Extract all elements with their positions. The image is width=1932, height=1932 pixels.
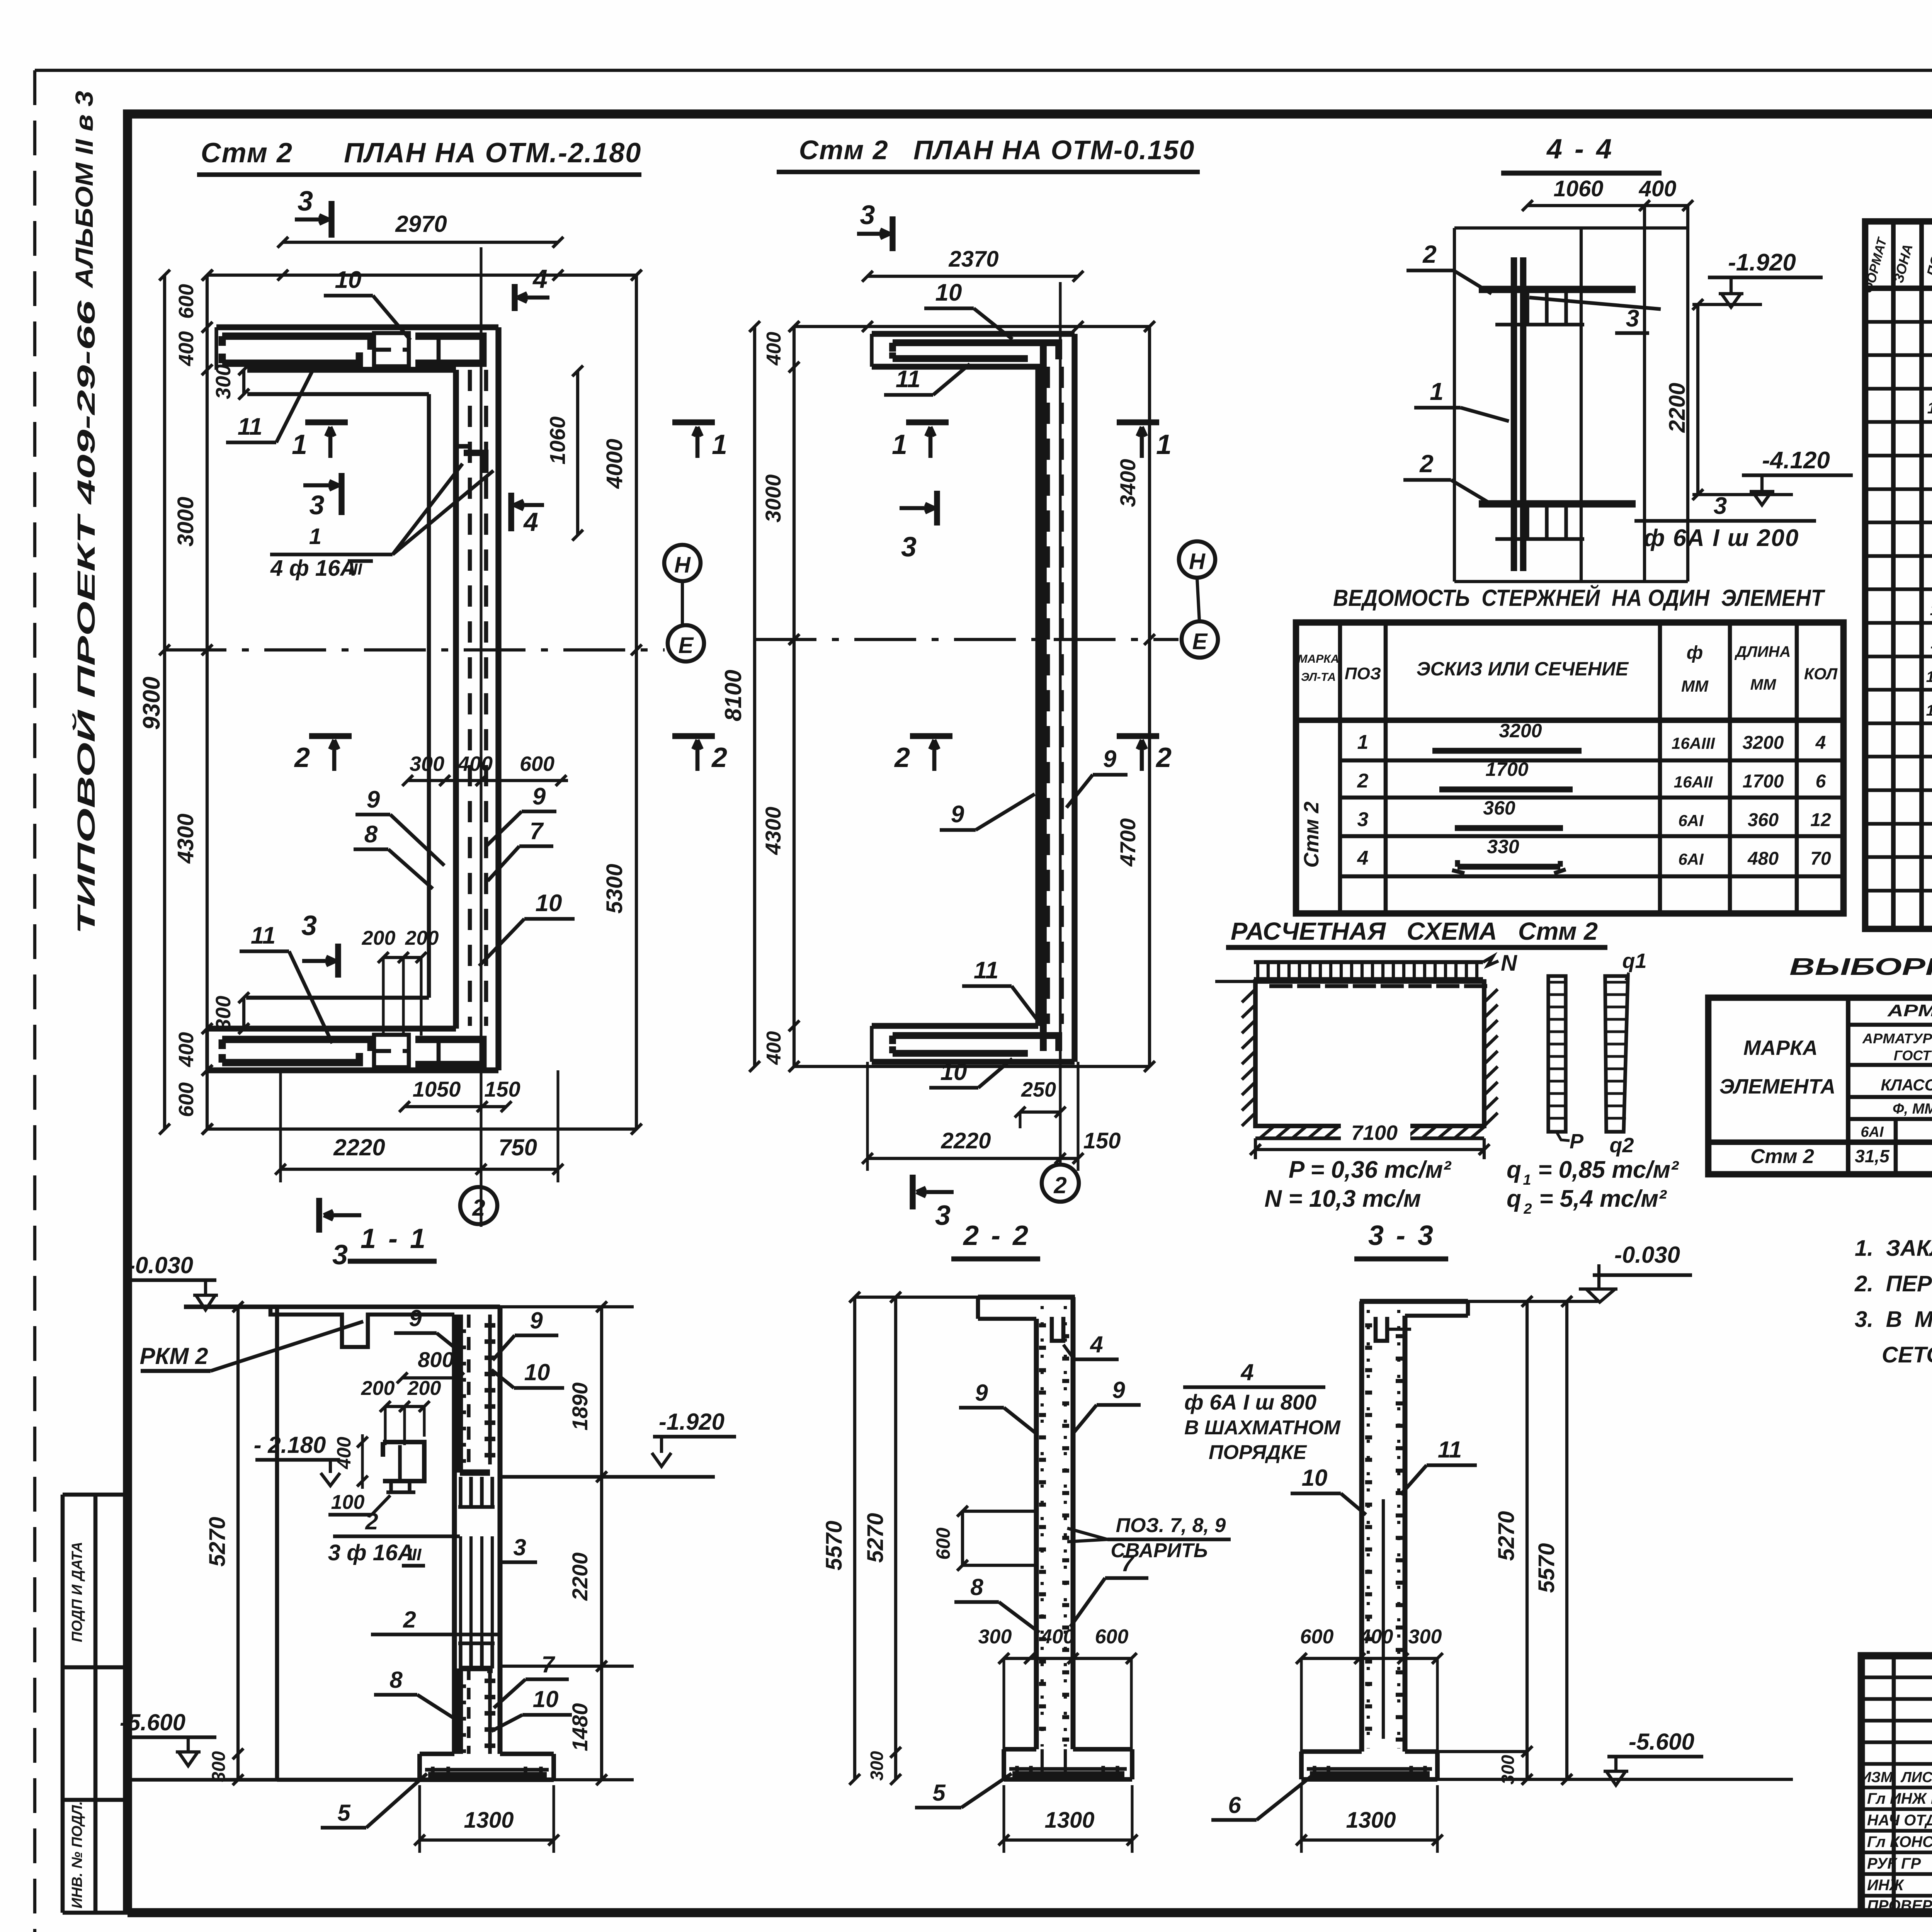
svg-text:Е: Е (679, 633, 694, 658)
plan2 right band rebar (1046, 367, 1050, 1024)
svg-text:РАСЧЕТНАЯ СХЕМА Стм 2: РАСЧЕТНАЯ СХЕМА Стм 2 (1231, 917, 1598, 945)
schema load strip 1 (1548, 976, 1566, 1132)
plan1 section marker 2 left (309, 733, 352, 739)
plan1 top band rebar left group (222, 336, 371, 350)
svg-text:400: 400 (457, 752, 493, 776)
svg-text:III: III (407, 1545, 422, 1564)
svg-text:300: 300 (212, 996, 235, 1031)
svg-text:КЛАСС А-I: КЛАСС А-I (1881, 1076, 1932, 1094)
plan2 section marker 3 mid (934, 491, 940, 526)
svg-text:Гл ИНЖ ПР: Гл ИНЖ ПР (1867, 1790, 1932, 1807)
svg-text:Стм 2 ПЛАН НА ОТМ.-2.18: Стм 2 ПЛАН НА ОТМ.-2.180 (201, 138, 642, 168)
svg-text:360: 360 (1748, 810, 1779, 830)
svg-text:q: q (1507, 1185, 1521, 1212)
svg-text:1-4: 1-4 (1927, 399, 1932, 417)
svg-text:В ШАХМАТНОМ: В ШАХМАТНОМ (1184, 1417, 1341, 1439)
svg-text:ВЫБОРКА СТАЛИ НА ОДИН ЭЛЕМЕНТ,: ВЫБОРКА СТАЛИ НА ОДИН ЭЛЕМЕНТ, КГ (1789, 954, 1932, 980)
svg-text:7: 7 (1121, 1550, 1135, 1576)
section 3-3 top level line (1468, 1300, 1598, 1303)
svg-text:4 - 4: 4 - 4 (1546, 134, 1614, 165)
svg-text:2: 2 (294, 742, 310, 773)
svg-text:200: 200 (361, 1377, 395, 1400)
svg-text:400: 400 (1041, 1626, 1075, 1648)
svg-text:600: 600 (932, 1527, 954, 1560)
svg-text:ПОДП И ДАТА: ПОДП И ДАТА (69, 1542, 85, 1642)
svg-text:ММ: ММ (1750, 676, 1777, 693)
svg-text:ММ: ММ (1681, 677, 1709, 695)
svg-text:ПОЗ: ПОЗ (1345, 664, 1381, 683)
svg-text:2 - 2: 2 - 2 (963, 1220, 1031, 1251)
svg-text:6: 6 (1228, 1792, 1241, 1818)
plan1 wall top band (216, 324, 498, 330)
svg-text:2: 2 (1419, 450, 1434, 478)
svg-text:НАЧ ОТД: НАЧ ОТД (1867, 1812, 1932, 1829)
svg-text:7: 7 (530, 818, 544, 845)
vyborka vertical lines (1846, 998, 1850, 1174)
svg-text:400: 400 (763, 332, 785, 366)
section 2-2 wall rebar right chain (1064, 1306, 1067, 1747)
section 2-2 footing rebar (1009, 1767, 1127, 1770)
svg-text:4: 4 (1240, 1359, 1253, 1385)
svg-text:200: 200 (407, 1377, 441, 1400)
svg-text:100: 100 (1926, 668, 1932, 685)
svg-text:600: 600 (520, 752, 554, 776)
plan1 section marker 4 mid (508, 493, 514, 531)
svg-text:1 - 1: 1 - 1 (361, 1223, 428, 1254)
svg-text:8: 8 (389, 1667, 403, 1693)
plan1 section marker 4 top (512, 284, 517, 311)
section 4-4 dim 2200 (1696, 304, 1699, 495)
svg-text:1300: 1300 (1044, 1808, 1094, 1833)
svg-text:11: 11 (896, 366, 920, 393)
title block small rows top-left (1861, 1675, 1932, 1679)
svg-text:9: 9 (975, 1380, 988, 1406)
svg-text:Е: Е (1192, 629, 1208, 654)
svg-text:-0.030: -0.030 (128, 1252, 193, 1278)
svg-text:300: 300 (867, 1751, 887, 1781)
plan1 section marker 3 very bottom (316, 1198, 322, 1233)
section 3-3 center bar (1382, 1499, 1385, 1739)
svg-text:-0.030: -0.030 (1614, 1242, 1680, 1268)
plan1 bottom band rebar right group (415, 1039, 483, 1065)
svg-text:9: 9 (1112, 1377, 1125, 1403)
svg-text:5270: 5270 (205, 1517, 230, 1566)
svg-text:200: 200 (362, 927, 396, 949)
plan1 top band rebar right group (415, 336, 483, 363)
svg-text:1700: 1700 (1485, 759, 1528, 780)
svg-text:Стм 2 ПЛАН НА ОТМ-0.150: Стм 2 ПЛАН НА ОТМ-0.150 (799, 135, 1195, 165)
svg-text:2220: 2220 (940, 1128, 991, 1153)
plan2 outer dims (794, 325, 1150, 328)
svg-text:ПОРЯДКЕ: ПОРЯДКЕ (1209, 1441, 1307, 1464)
plan2 section marker 3 top (889, 216, 895, 251)
svg-text:9: 9 (409, 1305, 422, 1331)
plan1 wall bottom band (207, 1026, 456, 1031)
svg-text:ДЛИНА: ДЛИНА (1735, 643, 1791, 660)
svg-text:3: 3 (860, 200, 875, 230)
svg-text:АРМАТУРНАЯ СТАЛЬ: АРМАТУРНАЯ СТАЛЬ (1862, 1031, 1932, 1046)
section 4-4 vertical grid lines (1643, 206, 1646, 582)
svg-text:2: 2 (365, 1509, 378, 1534)
svg-text:2200: 2200 (1665, 383, 1690, 433)
section 3-3 flange (1360, 1299, 1468, 1304)
svg-text:400: 400 (333, 1437, 355, 1469)
plan2 bottom band rebar (893, 1036, 1059, 1051)
section 2-2 footing (1004, 1747, 1036, 1752)
plan1 outer dim rectangle (207, 274, 636, 277)
schema left hatch (1242, 989, 1255, 1002)
svg-text:q2: q2 (1609, 1134, 1634, 1157)
svg-text:1060: 1060 (545, 417, 570, 465)
svg-text:3: 3 (301, 910, 317, 941)
section 1-1 right dims (600, 1307, 603, 1780)
svg-text:600: 600 (175, 284, 198, 319)
section 2-2 wall into footing rebar (1041, 1749, 1044, 1774)
svg-text:3200: 3200 (1743, 733, 1784, 753)
section 1-1 left dims (236, 1307, 240, 1780)
svg-text:1: 1 (1357, 731, 1369, 753)
svg-text:9: 9 (367, 786, 380, 813)
svg-text:300: 300 (978, 1626, 1012, 1648)
svg-text:2: 2 (1053, 1172, 1066, 1198)
svg-text:9: 9 (1103, 746, 1117, 772)
section 1-1 left region outline (275, 1307, 279, 1780)
section 1-1 upper rebar (457, 1315, 463, 1473)
svg-text:4 ф 16А: 4 ф 16А (270, 556, 356, 581)
spec table header row (1865, 286, 1932, 291)
svg-text:Н: Н (1189, 549, 1206, 574)
svg-text:10: 10 (1930, 600, 1932, 619)
svg-text:750: 750 (498, 1134, 537, 1160)
sheet outer thin border left (dashed scan edge) (33, 70, 36, 1932)
section 4-4 floor slabs (1479, 286, 1636, 293)
svg-text:3: 3 (1626, 305, 1639, 332)
plan2 axis-2 vertical (1059, 282, 1061, 1165)
section 1-1 starter bars lower (459, 1643, 462, 1668)
svg-text:3: 3 (332, 1240, 348, 1270)
schema top load strip (1254, 960, 1483, 964)
svg-text:Ф, ММ: Ф, ММ (1893, 1101, 1932, 1117)
section 3-3 dim 1300 (1301, 1838, 1437, 1842)
svg-text:= 5,4 тс/м²: = 5,4 тс/м² (1539, 1185, 1667, 1212)
svg-text:3. В МЕСТАХ ТЕХНОЛОГИЧЕС: 3. В МЕСТАХ ТЕХНОЛОГИЧЕСКИХ ОТВЕРСТИЙ АР… (1855, 1306, 1932, 1332)
plan2 section marker 2 right (1117, 733, 1159, 739)
svg-text:ТИПОВОЙ ПРОЕКТ 409-29-66: ТИПОВОЙ ПРОЕКТ 409-29-66 (71, 300, 100, 934)
svg-text:600: 600 (1300, 1626, 1334, 1648)
plan1 section marker 2 right (672, 733, 715, 739)
svg-text:ЭЛ-ТА: ЭЛ-ТА (1301, 671, 1336, 684)
plan2 section marker 1 left (906, 419, 949, 425)
left mini table (63, 1493, 128, 1497)
svg-text:1050: 1050 (413, 1077, 461, 1101)
svg-text:600: 600 (175, 1082, 198, 1117)
svg-text:2200: 2200 (568, 1553, 592, 1601)
svg-text:Гл КОНСТР: Гл КОНСТР (1867, 1833, 1932, 1850)
svg-text:1300: 1300 (1346, 1808, 1396, 1833)
svg-text:1300: 1300 (464, 1808, 514, 1833)
svg-text:101: 101 (1926, 702, 1932, 719)
svg-text:5570: 5570 (1534, 1543, 1559, 1593)
svg-text:-5.600: -5.600 (120, 1709, 185, 1735)
plan1 wall right band verticals (453, 370, 459, 1029)
svg-text:2: 2 (1357, 770, 1369, 792)
svg-text:11: 11 (238, 413, 262, 440)
svg-text:1: 1 (1156, 429, 1172, 460)
svg-text:-4.120: -4.120 (1762, 447, 1830, 474)
svg-text:1: 1 (1523, 1172, 1531, 1188)
svg-text:3000: 3000 (173, 497, 198, 546)
svg-text:200: 200 (405, 927, 439, 949)
svg-text:150: 150 (484, 1077, 520, 1101)
plan2 axis circle E (1182, 621, 1218, 658)
schema main rect (1255, 981, 1484, 1126)
svg-text:360: 360 (1483, 797, 1515, 819)
svg-text:400: 400 (175, 331, 198, 366)
svg-text:Стм 2: Стм 2 (1300, 801, 1323, 867)
svg-text:5570: 5570 (821, 1520, 847, 1570)
svg-text:8: 8 (970, 1574, 983, 1600)
section 3-3 footing (1301, 1749, 1362, 1754)
svg-text:P = 0,36 тс/м²: P = 0,36 тс/м² (1289, 1156, 1451, 1183)
section 1-1 slab with notch (270, 1307, 454, 1347)
svg-text:АЛЬБОМ II в 3: АЛЬБОМ II в 3 (70, 91, 98, 289)
vyborka horizontal lines (1848, 1023, 1932, 1027)
svg-text:РУК ГР: РУК ГР (1867, 1855, 1921, 1872)
plan2 section marker 2 left (910, 733, 952, 739)
svg-text:2: 2 (1155, 742, 1172, 773)
svg-text:2: 2 (472, 1195, 485, 1221)
svg-text:10: 10 (524, 1359, 550, 1385)
section 4-4 left extension (1453, 228, 1456, 582)
svg-text:10: 10 (940, 1059, 967, 1085)
schema squiggle N (1483, 956, 1498, 966)
svg-text:2. ПЕРЕКРЫТИЕ РКМ 2: 2. ПЕРЕКРЫТИЕ РКМ 2 СМОТРИТЕ НА ЛИСТЕ КЖ… (1854, 1271, 1932, 1296)
svg-text:P: P (1570, 1130, 1584, 1153)
svg-text:МАРКА: МАРКА (1743, 1036, 1818, 1060)
svg-text:1: 1 (292, 429, 307, 460)
svg-text:2: 2 (894, 742, 910, 773)
svg-text:10: 10 (533, 1686, 559, 1712)
svg-text:9: 9 (530, 1308, 543, 1333)
svg-text:АРМАТУРНЫЕ ИЗДЕЛИЯ: АРМАТУРНЫЕ ИЗДЕЛИЯ (1887, 1001, 1932, 1020)
schema bottom dim (1250, 1144, 1261, 1155)
svg-text:1060: 1060 (1553, 176, 1603, 201)
plan1 bottom band dashed bars (374, 1035, 409, 1067)
plan1 step lines (247, 392, 429, 396)
svg-text:3: 3 (901, 532, 917, 563)
plan2 wall outline (872, 331, 1075, 337)
plan1 section marker 1 right (672, 419, 715, 425)
plan2 top band rebar (893, 343, 1059, 359)
svg-text:3200: 3200 (1499, 720, 1542, 742)
svg-text:4: 4 (1815, 733, 1826, 753)
svg-text:ЭСКИЗ ИЛИ СЕЧЕНИЕ: ЭСКИЗ ИЛИ СЕЧЕНИЕ (1417, 658, 1629, 680)
svg-text:300: 300 (209, 1751, 229, 1782)
plan1 axis line horizontal (165, 648, 665, 651)
svg-text:330: 330 (1487, 836, 1519, 857)
svg-text:9: 9 (951, 801, 964, 828)
svg-text:2970: 2970 (395, 211, 447, 237)
svg-text:Н: Н (674, 553, 691, 578)
title block left columns (1892, 1656, 1896, 1913)
svg-text:5270: 5270 (1494, 1511, 1519, 1561)
section 3-3 right dims (1526, 1301, 1529, 1752)
svg-text:= 0,85 тс/м²: = 0,85 тс/м² (1538, 1156, 1679, 1183)
svg-text:11: 11 (974, 957, 998, 984)
title block signature rows (1861, 1807, 1932, 1811)
schema bottom band (1255, 1136, 1484, 1140)
svg-text:ф 6А I ш 200: ф 6А I ш 200 (1644, 525, 1799, 551)
svg-text:4300: 4300 (173, 813, 198, 864)
svg-text:3: 3 (1714, 493, 1727, 519)
svg-text:9300: 9300 (138, 677, 165, 730)
section 2-2 wall (1034, 1319, 1039, 1749)
svg-text:400: 400 (1639, 176, 1677, 201)
section 2-2 dim 600 mid (961, 1511, 964, 1565)
section 1-1 level -1.920 line (500, 1475, 715, 1478)
plan1 dim 1060 (576, 371, 579, 535)
svg-text:1: 1 (309, 524, 321, 549)
svg-text:9: 9 (532, 783, 546, 810)
section 2-2 wall rebar left chain (1041, 1306, 1044, 1747)
spec table verticals (1891, 221, 1896, 929)
svg-text:4: 4 (1357, 847, 1369, 869)
svg-text:2: 2 (711, 742, 727, 773)
svg-text:2220: 2220 (333, 1134, 385, 1160)
svg-text:480: 480 (1747, 849, 1779, 869)
vedomost table frame (1296, 622, 1844, 913)
section 3-3 wall rebar left chain (1367, 1310, 1370, 1748)
svg-text:3: 3 (513, 1534, 526, 1560)
plan1 axis circle N (664, 545, 701, 581)
svg-text:10: 10 (536, 890, 562, 917)
section 3-3 top pin (1376, 1317, 1387, 1341)
svg-text:5270: 5270 (863, 1513, 888, 1563)
svg-text:600: 600 (1095, 1626, 1129, 1648)
svg-text:5: 5 (932, 1780, 946, 1806)
svg-text:10: 10 (935, 279, 962, 306)
section 1-1 splice bars mid (459, 1536, 462, 1643)
section 2-2 flange (978, 1295, 1075, 1300)
svg-text:1: 1 (1430, 378, 1444, 405)
svg-text:2370: 2370 (948, 247, 998, 272)
plan1 corner rebar detail (464, 453, 485, 473)
svg-text:N = 10,3 тс/м: N = 10,3 тс/м (1264, 1185, 1421, 1212)
svg-text:-5.600: -5.600 (1629, 1729, 1694, 1755)
section 1-1 bracket at -2.180 (383, 1442, 424, 1481)
svg-text:3: 3 (298, 186, 313, 217)
section 1-1 dim 1300 (420, 1838, 554, 1842)
svg-text:6АI: 6АI (1678, 811, 1704, 830)
svg-text:8100: 8100 (720, 670, 746, 721)
svg-text:ИНЖ: ИНЖ (1867, 1877, 1905, 1894)
section 3-3 wall (1359, 1301, 1364, 1752)
svg-text:ПРОВЕР: ПРОВЕР (1867, 1897, 1932, 1914)
svg-text:400: 400 (763, 1031, 785, 1065)
svg-text:8: 8 (364, 821, 378, 848)
svg-text:ПОЗ. 7, 8, 9: ПОЗ. 7, 8, 9 (1116, 1514, 1226, 1537)
title block outer (1861, 1656, 1932, 1913)
svg-text:-1.920: -1.920 (1728, 249, 1796, 276)
svg-text:7100: 7100 (1351, 1121, 1398, 1145)
plan2 axis circle N (1179, 541, 1215, 578)
section 3-3 footing rebar (1307, 1767, 1432, 1770)
section 1-1 top floor line (184, 1304, 500, 1309)
svg-text:4: 4 (523, 507, 538, 537)
svg-text:3: 3 (935, 1200, 951, 1231)
section 2-2 dim 1300 (1004, 1838, 1132, 1842)
svg-text:5300: 5300 (602, 864, 627, 913)
svg-text:ИНВ. № ПОДЛ.: ИНВ. № ПОДЛ. (69, 1801, 85, 1908)
plan1 dimension 2970 (283, 241, 558, 244)
section 1-1 footing (420, 1752, 454, 1756)
svg-text:300: 300 (1408, 1626, 1442, 1648)
plan2 axis circle 2 (1042, 1165, 1079, 1202)
section 1-1 lower rebar (457, 1668, 463, 1754)
svg-text:11: 11 (1438, 1437, 1462, 1463)
plan1 section marker 1 left (305, 419, 348, 425)
svg-text:ф: ф (1687, 643, 1703, 663)
plan2 section marker 1 right (1117, 419, 1159, 425)
svg-text:16АIII: 16АIII (1672, 734, 1715, 752)
svg-text:-1.920: -1.920 (659, 1409, 724, 1435)
plan1 top band dashed bars (374, 333, 409, 366)
svg-text:РКМ 2: РКМ 2 (140, 1343, 208, 1369)
plan1 wall inner vertical (427, 394, 431, 998)
schema left level line (1215, 980, 1255, 983)
svg-text:ГОСТ 5781-75: ГОСТ 5781-75 (1894, 1048, 1932, 1063)
section 1-1 footing rebar (425, 1768, 549, 1771)
svg-text:ИЗМ: ИЗМ (1861, 1769, 1893, 1786)
svg-text:10: 10 (335, 267, 362, 293)
svg-text:100: 100 (331, 1491, 365, 1514)
svg-text:7: 7 (541, 1651, 555, 1677)
svg-text:- 2.180: - 2.180 (254, 1432, 326, 1458)
svg-text:400: 400 (175, 1032, 198, 1067)
svg-text:3: 3 (310, 490, 325, 520)
svg-text:6АI: 6АI (1678, 850, 1704, 868)
plan1 axis-2 vertical line (480, 247, 482, 1227)
svg-text:1890: 1890 (568, 1383, 592, 1431)
svg-text:4300: 4300 (761, 807, 785, 855)
svg-text:31,5: 31,5 (1855, 1146, 1890, 1166)
section 1-1 wall outline (452, 1315, 457, 1754)
svg-text:ф 6А I ш 800: ф 6А I ш 800 (1184, 1390, 1316, 1414)
section 2-2 outer dim lines (853, 1297, 856, 1779)
plan1 axis circle E (668, 625, 704, 662)
svg-text:3 ф 16А: 3 ф 16А (328, 1540, 414, 1565)
plan2 dim 2370 (867, 275, 1078, 278)
svg-text:1. ЗАКЛАДНЫЕ ИЗДЕЛИЯ ЗА: 1. ЗАКЛАДНЫЕ ИЗДЕЛИЯ ЗАМАРКИРОВАНЫ НА ЛИ… (1855, 1236, 1932, 1261)
svg-text:МАРКА: МАРКА (1298, 653, 1339, 665)
section 3-3 wall rebar right chain (1397, 1310, 1400, 1748)
svg-text:250: 250 (1021, 1078, 1056, 1101)
schema load strip 2 (1605, 976, 1628, 1132)
plan2 axis line horizontal (755, 638, 1179, 641)
svg-text:1480: 1480 (568, 1703, 592, 1752)
section 4-4 wall verticals (1511, 257, 1517, 571)
plan1 bottom band rebar left group (222, 1039, 371, 1051)
svg-text:q1: q1 (1622, 949, 1646, 973)
svg-text:СЕТОК ВЫРЕЗАТЬ ПО МЕСТУ: СЕТОК ВЫРЕЗАТЬ ПО МЕСТУ. (1882, 1342, 1932, 1367)
vyborka table frame (1708, 998, 1932, 1174)
svg-text:150: 150 (1083, 1128, 1121, 1153)
svg-text:ВЕДОМОСТЬ СТЕРЖНЕЙ НА ОДИН: ВЕДОМОСТЬ СТЕРЖНЕЙ НА ОДИН ЭЛЕМЕНТ (1333, 585, 1825, 611)
svg-text:4: 4 (532, 264, 548, 294)
plan2 section marker 3 bottom (910, 1175, 915, 1209)
svg-text:4000: 4000 (602, 439, 627, 489)
svg-text:2: 2 (403, 1607, 416, 1633)
